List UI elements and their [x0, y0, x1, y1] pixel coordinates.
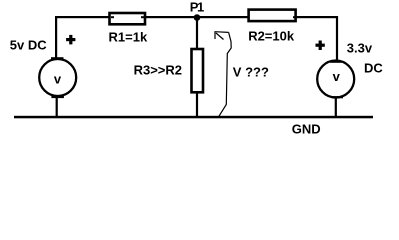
resistor R2 lead notch right: [293, 16, 296, 18]
wire from 3.3v source bottom to ground: [335, 97, 337, 117]
svg-text:P1: P1: [190, 0, 204, 14]
wire from R3 bottom to ground: [196, 92, 198, 117]
wire top horizontal from 5v source to 3.3v source: [55, 16, 338, 18]
resistor R1 lead notch left: [111, 16, 114, 18]
svg-text:R2=10k: R2=10k: [248, 28, 295, 43]
wire left vertical from top wire down to 5v source: [55, 16, 57, 59]
svg-text:R1=1k: R1=1k: [109, 30, 148, 45]
ground rail: [14, 116, 373, 119]
measurement arrow for V across R3: [215, 32, 231, 117]
svg-text:R3>>R2: R3>>R2: [134, 62, 182, 77]
svg-text:V ???: V ???: [233, 64, 269, 79]
voltage source V2 bottom junction tick: [332, 96, 343, 98]
voltage source V2 3.3v circle: [317, 61, 354, 98]
resistor R1: [110, 13, 146, 24]
plus sign at 5v source: [66, 35, 75, 45]
wire from 5v source bottom to ground: [56, 96, 58, 117]
svg-text:v: v: [54, 72, 62, 87]
voltage source V2 top junction tick: [330, 61, 342, 63]
resistor R1 lead notch right: [141, 16, 144, 18]
node P1 junction dot: [194, 14, 201, 21]
svg-text:DC: DC: [364, 60, 383, 75]
voltage source V1 5v circle: [39, 59, 76, 96]
voltage source V1 top junction tick: [51, 57, 64, 59]
svg-text:5v DC: 5v DC: [10, 37, 47, 52]
voltage source V1 bottom junction tick: [51, 96, 64, 98]
wire from node P1 down to R3: [196, 17, 198, 49]
plus sign at 3.3v source: [316, 41, 325, 51]
svg-text:v: v: [333, 69, 341, 84]
wire right vertical from top wire down to 3.3v source: [336, 16, 338, 61]
svg-text:GND: GND: [292, 122, 321, 137]
resistor R3 (vertical): [192, 49, 204, 92]
svg-text:3.3v: 3.3v: [347, 40, 373, 55]
resistor R2: [249, 10, 296, 22]
